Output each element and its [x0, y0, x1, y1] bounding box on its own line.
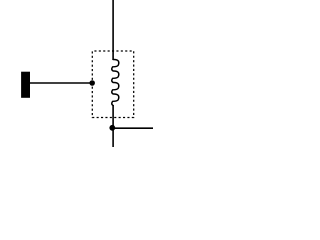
junction node A on box left edge	[89, 80, 95, 86]
wire: top vertical feed	[112, 0, 114, 60]
wire: bottom horizontal to right edge	[113, 127, 153, 129]
junction node B	[109, 125, 115, 131]
terminal bar	[21, 72, 30, 98]
wire: bottom vertical	[112, 105, 114, 147]
wire: left horizontal	[30, 82, 93, 84]
inductor L1 coil	[112, 59, 119, 105]
dashed enclosure box	[92, 51, 133, 118]
